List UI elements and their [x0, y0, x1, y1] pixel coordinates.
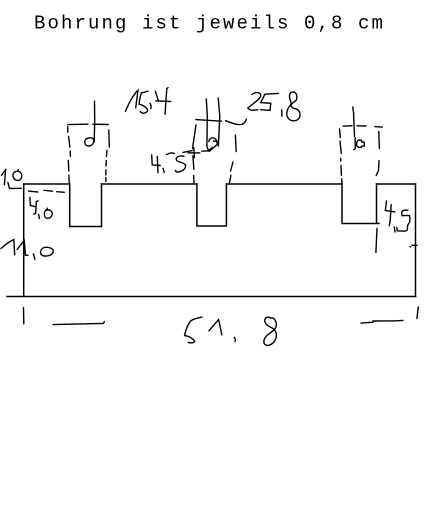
svg-text:Bohrung ist jeweils 0,8 cm: Bohrung ist jeweils 0,8 cm: [34, 13, 385, 35]
